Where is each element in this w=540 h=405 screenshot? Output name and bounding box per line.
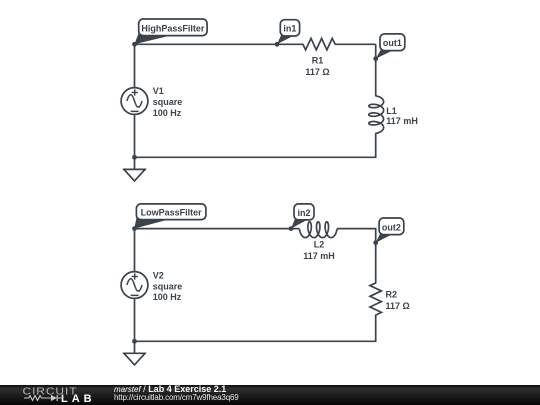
svg-text:HighPassFilter: HighPassFilter <box>141 23 205 33</box>
svg-text:117 mH: 117 mH <box>386 116 418 126</box>
svg-text:square: square <box>153 97 183 107</box>
svg-text:V2: V2 <box>153 271 164 281</box>
svg-text:in1: in1 <box>283 24 296 34</box>
svg-text:LowPassFilter: LowPassFilter <box>141 208 203 218</box>
svg-text:V1: V1 <box>153 86 164 96</box>
svg-text:100 Hz: 100 Hz <box>153 108 182 118</box>
svg-text:out2: out2 <box>382 222 401 232</box>
svg-text:square: square <box>153 281 183 291</box>
svg-text:117 mH: 117 mH <box>303 251 335 261</box>
svg-text:in2: in2 <box>297 208 310 218</box>
svg-text:100 Hz: 100 Hz <box>153 292 182 302</box>
svg-text:R2: R2 <box>386 290 398 300</box>
svg-text:R1: R1 <box>312 55 324 65</box>
svg-text:117 Ω: 117 Ω <box>305 67 329 77</box>
svg-text:L2: L2 <box>314 239 325 249</box>
svg-text:out1: out1 <box>383 38 402 48</box>
svg-text:117 Ω: 117 Ω <box>386 301 410 311</box>
svg-text:L1: L1 <box>386 106 397 116</box>
